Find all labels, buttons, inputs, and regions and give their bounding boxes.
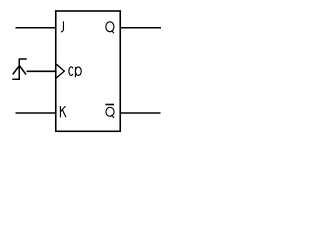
- clock rising-edge symbol step: [12, 59, 26, 79]
- wire Q output: [121, 27, 161, 29]
- wire cp clock input: [27, 70, 56, 72]
- clock rising-edge symbol arrowhead: [13, 66, 26, 75]
- pin label Q: [106, 22, 114, 33]
- pin label cp: [69, 67, 81, 78]
- wire K input: [16, 112, 56, 114]
- edge-trigger triangle at cp pin: [57, 64, 65, 78]
- pin label K: [60, 106, 65, 117]
- wire Q-bar output: [121, 112, 161, 114]
- pin label J: [61, 21, 64, 32]
- overbar of Q-bar: [105, 104, 114, 106]
- pin label Q-bar: [106, 107, 114, 117]
- wire J input: [16, 27, 56, 29]
- flip-flop U1 body: [56, 11, 121, 131]
